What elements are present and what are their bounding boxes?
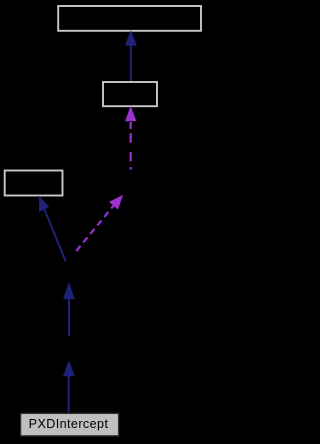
class node left (member type box)	[5, 171, 63, 196]
inheritance arrow E3 (invisible node A to left box, solid navy diagonal)	[39, 196, 66, 261]
class node PXDIntercept (current class, grey filled)	[21, 413, 119, 435]
class node top (base class box)	[58, 6, 201, 31]
usage arrow E4 (invisible node A to invisible node B, dashed purple diagonal)	[76, 195, 122, 251]
class node middle (derived class box)	[103, 82, 157, 106]
inheritance arrow E1 (middle box to top box, solid navy)	[125, 31, 136, 81]
svg-text:PXDIntercept: PXDIntercept	[29, 417, 109, 431]
usage arrow E2 (invisible node B to middle box, dashed purple)	[125, 107, 136, 170]
inheritance arrow E6 (PXDIntercept to invisible node C, solid navy)	[63, 361, 74, 412]
inheritance arrow E5 (invisible node C to invisible node A, solid navy)	[63, 283, 74, 336]
